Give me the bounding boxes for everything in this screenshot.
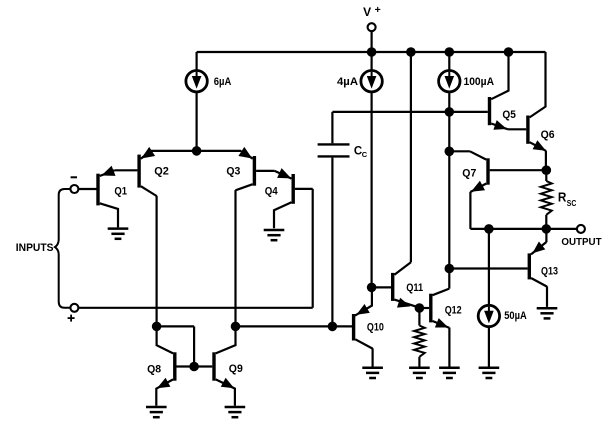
transistor Q5 [490, 52, 509, 130]
capacitor CC [318, 144, 350, 156]
junction Q12 collector node [445, 264, 455, 274]
svg-text:Q4: Q4 [265, 185, 279, 197]
wire Q4 base riser to plus input [312, 189, 314, 308]
transistor Q4 [274, 168, 313, 228]
svg-text:Q8: Q8 [147, 363, 161, 375]
junction output node [542, 224, 552, 234]
svg-text:SC: SC [567, 198, 577, 208]
svg-text:6µA: 6µA [214, 76, 232, 88]
label 100uA [464, 76, 495, 88]
label CC [354, 146, 368, 159]
junction Q6emitter/Rsc/Q7base [542, 165, 552, 175]
label Q11 [406, 282, 423, 294]
wire Rsc bottom lead [545, 215, 547, 229]
wire Rsc top lead [545, 170, 547, 181]
label Q9 [229, 363, 243, 375]
wire plus input line [79, 307, 313, 309]
svg-text:Q12: Q12 [445, 304, 462, 316]
wire rail to 6uA source [196, 52, 198, 71]
svg-text:+: + [375, 4, 381, 16]
svg-text:OUTPUT: OUTPUT [561, 237, 601, 248]
junction Q7 collector node [445, 147, 455, 157]
wire Q7 base line [490, 169, 547, 171]
wire Q3 collector drop [234, 190, 236, 326]
ground Q12 emitter [439, 368, 460, 378]
node OUTPUT terminal [577, 225, 585, 233]
wire Q1 emitter to Q2 base [114, 169, 137, 171]
junction Q10 emitter/Q11 base node [367, 283, 377, 293]
wire rail to 4uA source [371, 52, 373, 71]
current source 100uA [439, 71, 460, 92]
junction diff-pair emitter node [192, 146, 202, 156]
svg-text:Q2: Q2 [154, 165, 169, 177]
ground Q4 collector [264, 230, 285, 240]
transistor Q7 [470, 151, 488, 192]
ground Q9 emitter [225, 407, 246, 417]
wire top supply rail [197, 51, 546, 53]
svg-text:4µA: 4µA [337, 76, 358, 88]
wire first-stage output bus [236, 325, 354, 327]
label Q6 [541, 129, 555, 141]
svg-text:50µA: 50µA [504, 310, 527, 322]
label Q12 [445, 304, 462, 316]
node plus input terminal [68, 304, 79, 322]
transistor Q1 [79, 166, 118, 228]
ground 50uA [479, 368, 500, 378]
wire Cc top lead [331, 112, 333, 143]
transistor Q2 [139, 147, 157, 196]
wire Q3 base to Q4 emitter [256, 170, 275, 172]
transistor Q12 [419, 289, 449, 328]
label Q7 [462, 167, 476, 179]
junction rail/100uA [445, 47, 455, 57]
svg-text:Q11: Q11 [406, 282, 423, 294]
wire 4uA drop to Q10/Q11 [371, 92, 373, 288]
resistor Q12-base bleed [414, 326, 425, 357]
transistor Q13 [529, 242, 547, 287]
label INPUTS [16, 242, 54, 254]
svg-text:Q1: Q1 [114, 185, 127, 197]
transistor Q11 [372, 262, 420, 307]
wire 100uA drop [448, 92, 450, 269]
label OUTPUT [561, 237, 601, 248]
junction Cc/first-stage bus [328, 322, 338, 332]
junction Q8/Q9 base node [189, 362, 199, 372]
junction rail/Q5-collector [504, 47, 514, 57]
transistor Q6 [528, 52, 546, 151]
label Q10 [367, 321, 384, 333]
current source 4uA [361, 71, 382, 92]
node V+ terminal [363, 4, 381, 31]
wire Q12 emitter drop [448, 328, 450, 367]
ground Q10 collector [362, 368, 383, 378]
junction rail/Q11-branch [406, 47, 416, 57]
wire output bus [470, 228, 576, 230]
ground Q13 collector [537, 308, 558, 318]
wire rail to 100uA source [448, 52, 450, 71]
current source 50uA [478, 305, 499, 326]
label Q5 [502, 109, 516, 121]
wire Q5 base line [332, 111, 487, 113]
transistor Q3 [236, 147, 255, 190]
wire Q7 emitter drop [469, 192, 471, 229]
svg-text:V: V [363, 5, 371, 19]
transistor Q8 [156, 326, 194, 405]
wire resistor top lead [418, 308, 420, 326]
label 4uA [337, 76, 358, 88]
junction Q3/Q9 collector node [231, 322, 241, 332]
wire output bus to 50uA [488, 229, 490, 305]
wire Q13 collector drop [546, 286, 548, 307]
svg-text:Q13: Q13 [541, 266, 558, 278]
current source 6uA [186, 71, 207, 92]
wire emitter bus right [197, 150, 242, 152]
svg-text:Q9: Q9 [229, 363, 243, 375]
wire 6uA to diff-pair emitters [196, 92, 198, 151]
svg-text:Q10: Q10 [367, 321, 384, 333]
wire mirror tie drop [193, 326, 195, 366]
junction rail/4uA [367, 47, 377, 57]
wire Cc bottom lead [331, 158, 333, 327]
label Q8 [147, 363, 161, 375]
wire input bracket with brace [55, 189, 70, 308]
junction 50uA branch [484, 224, 494, 234]
wire Q2-collector junction [152, 322, 162, 332]
wire Q2 collector drop [156, 196, 158, 327]
label Q4 [265, 185, 279, 197]
ground bleed resistor [409, 368, 430, 378]
label 50uA [504, 310, 527, 322]
transistor Q10 [354, 287, 373, 348]
svg-text:Q6: Q6 [541, 129, 555, 141]
wire Q13 base line [449, 267, 527, 269]
wire Q6 emitter drop [545, 151, 547, 171]
label Q3 [226, 165, 240, 177]
svg-text:Q7: Q7 [462, 167, 476, 179]
svg-text:INPUTS: INPUTS [16, 242, 54, 254]
label 6uA [214, 76, 232, 88]
svg-text:100µA: 100µA [464, 76, 495, 88]
svg-text:C: C [362, 150, 368, 159]
label Q13 [541, 266, 558, 278]
wire Q5 emitter to Q6 base [508, 128, 526, 130]
label RSC [558, 189, 576, 207]
svg-text:R: R [558, 189, 567, 204]
ground Q8 emitter [146, 407, 167, 417]
transistor Q9 [194, 326, 235, 405]
wire Q10 collector drop [372, 348, 374, 367]
node minus input terminal [70, 177, 78, 193]
wire emitter bus left [151, 150, 197, 152]
wire Q13 emitter riser [545, 229, 547, 242]
wire Q7 collector tie [449, 150, 470, 152]
wire resistor bottom lead [418, 357, 420, 367]
label Q1 [114, 185, 127, 197]
wire 50uA to ground [488, 327, 490, 367]
label Q2 [154, 165, 169, 177]
wire mirror tie horizontal [157, 325, 195, 327]
svg-text:Q5: Q5 [502, 109, 516, 121]
ground Q1 collector [108, 229, 129, 239]
svg-text:Q3: Q3 [226, 165, 240, 177]
wire rail to Q11 collector [410, 52, 412, 262]
resistor RSC [541, 181, 552, 215]
wire V+ to rail [371, 31, 373, 52]
junction Q11 emitter/Q12 base/resistor [415, 303, 425, 313]
wire Q12 collector drop [448, 269, 450, 289]
junction 100uA/Q5-base/Cc [445, 107, 455, 117]
